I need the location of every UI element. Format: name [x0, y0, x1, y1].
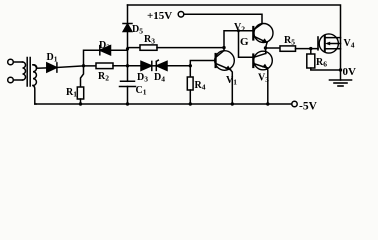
resistor R5	[280, 46, 296, 51]
wire V1 collector up to V2 base	[224, 31, 253, 48]
diode D5	[123, 23, 132, 25]
junction dot R6 top	[309, 47, 312, 50]
wire R3 branch: D5 node to V1 collector	[128, 47, 141, 49]
wire jog to V1 base	[190, 61, 215, 66]
resistor R4	[189, 66, 191, 77]
wire V3 emitter down to rail	[266, 68, 269, 104]
junction dot C1 bottom	[126, 102, 129, 105]
wire D3 to D4	[152, 65, 157, 67]
wire V2 collector to +15V	[184, 14, 262, 23]
node C junction dot (R4 top)	[189, 64, 192, 67]
terminal -5V	[35, 103, 292, 105]
wire secondary bottom to rail	[33, 86, 36, 105]
MOSFET substrate stub with arrow	[328, 43, 341, 45]
svg-text:0V: 0V	[343, 66, 357, 78]
svg-text:V2: V2	[234, 22, 245, 34]
resistor R2	[96, 63, 113, 69]
resistor R6	[310, 49, 312, 54]
wire top rail	[128, 5, 341, 80]
junction dot V1 emitter bottom	[231, 102, 234, 105]
wire primary terminal leads	[13, 62, 22, 80]
node D junction dot (V1 collector)	[222, 46, 225, 49]
wire secondary top to D1	[33, 65, 47, 68]
wire V2 emitter to node G	[266, 43, 268, 48]
junction dot base tie	[237, 29, 240, 32]
wire R3 to V1 collector node	[157, 47, 224, 49]
junction dot V3 emitter bottom	[266, 102, 269, 105]
transformer T secondary winding	[33, 65, 36, 86]
wire V1 collector into circle	[223, 48, 225, 51]
wire base tie V2-V3	[239, 31, 254, 57]
wire D2 to D5 branch	[111, 49, 128, 51]
svg-text:R3: R3	[144, 34, 155, 46]
svg-text:D4: D4	[154, 72, 165, 84]
MOSFET gate bar	[317, 37, 319, 50]
transformer T primary terminal circles	[8, 59, 14, 65]
wire node A up to D2	[84, 50, 100, 66]
wire R2 to D5 branch	[113, 65, 141, 67]
transistor V1	[215, 51, 235, 71]
svg-text:R2: R2	[98, 71, 109, 83]
wire V1 emitter down to rail	[231, 70, 233, 104]
svg-text:R1: R1	[66, 87, 77, 99]
MOSFET source stub	[325, 48, 341, 50]
node G junction dot	[264, 46, 267, 49]
node B junction dot	[126, 64, 129, 67]
diode D2	[99, 46, 101, 55]
wire node G to R5	[266, 47, 281, 49]
junction dot R6 bottom at rail	[339, 68, 342, 71]
svg-text:+15V: +15V	[147, 10, 172, 22]
junction dot D5/R3	[126, 47, 129, 50]
transistor V3	[254, 51, 273, 70]
MOSFET V4	[319, 34, 338, 53]
terminal +15V	[178, 12, 184, 18]
wire D4 to R4 node	[167, 65, 190, 67]
diode D1	[47, 63, 57, 72]
wire R5 to gate	[296, 48, 319, 50]
diode D4	[156, 60, 158, 70]
capacitor C1	[127, 66, 129, 82]
transistor V2	[254, 24, 273, 43]
resistor R3	[140, 45, 157, 50]
MOSFET drain stub	[325, 37, 341, 39]
svg-text:G: G	[240, 36, 249, 48]
svg-text:C1: C1	[136, 85, 147, 97]
junction dot R1 bottom	[79, 102, 82, 105]
svg-text:D1: D1	[47, 52, 58, 64]
resistor R1	[81, 66, 84, 87]
svg-text:V3: V3	[258, 73, 269, 85]
svg-text:R5: R5	[284, 35, 295, 47]
wire D1 cathode to node A	[57, 66, 96, 68]
transformer T primary winding	[23, 62, 26, 80]
svg-text:R6: R6	[316, 57, 327, 69]
svg-text:D2: D2	[99, 40, 110, 52]
ground symbol	[330, 79, 352, 81]
svg-text:-5V: -5V	[299, 101, 318, 113]
wire D5 vertical branch	[127, 5, 129, 24]
diode D3	[141, 61, 152, 70]
svg-text:D5: D5	[132, 24, 143, 36]
MOSFET channel bar	[324, 36, 326, 52]
svg-text:V1: V1	[226, 75, 237, 87]
transformer T core	[27, 58, 30, 87]
svg-text:R4: R4	[195, 80, 206, 92]
svg-text:D3: D3	[137, 72, 148, 84]
svg-text:V4: V4	[344, 38, 355, 50]
node A junction dot	[82, 64, 85, 67]
junction dot R4 bottom	[189, 102, 192, 105]
